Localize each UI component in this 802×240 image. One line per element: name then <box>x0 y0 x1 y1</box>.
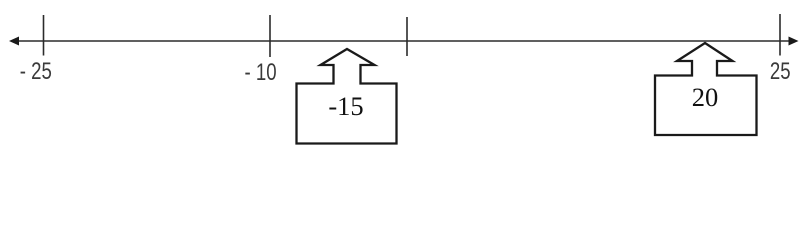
block arrow callout -15 <box>297 49 397 144</box>
tick -25 <box>43 15 45 56</box>
tick 25 <box>779 14 781 56</box>
svg-text:-15: -15 <box>328 91 363 121</box>
tick -10 <box>269 15 271 57</box>
svg-text:20: 20 <box>692 82 719 112</box>
svg-text:- 10: - 10 <box>244 57 276 85</box>
tick middle <box>406 17 408 56</box>
number line <box>13 40 794 42</box>
svg-text:25: 25 <box>770 56 791 84</box>
svg-text:- 25: - 25 <box>20 56 52 84</box>
right arrowhead <box>789 37 799 46</box>
left arrowhead <box>9 37 19 46</box>
block arrow callout 20 <box>655 43 757 135</box>
